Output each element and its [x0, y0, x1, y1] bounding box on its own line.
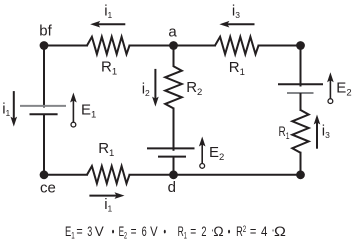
svg-text:4: 4	[261, 224, 268, 239]
svg-text:d: d	[168, 179, 176, 196]
svg-text:ce: ce	[40, 179, 56, 196]
battery E2 right top plate (long, black)	[278, 83, 323, 85]
wire: node d to bottom-right corner	[174, 174, 301, 176]
wire middle branch (R2 down to battery E2)	[173, 108, 175, 151]
svg-text:R1: R1	[229, 59, 245, 78]
emf arrow E2 right (up arrow with open circle)	[327, 72, 334, 103]
svg-text:i1: i1	[104, 196, 112, 214]
battery E2 middle top plate (long)	[147, 147, 195, 149]
current arrow i1 (top, pointing left)	[90, 21, 125, 28]
current arrow i2 (middle, pointing down)	[152, 69, 159, 107]
caption: E1 = 3 V, E2 = 6 V, R1 = 2 Ohm, R2 = 4 Ohm	[65, 224, 286, 241]
node bottom-right (dot)	[296, 170, 305, 179]
battery E2 middle bottom plate (short)	[158, 156, 186, 158]
wire right branch lower (R1 down to corner)	[300, 152, 302, 175]
emf arrow E2 middle (up arrow with open circle)	[199, 137, 206, 169]
svg-text:R1: R1	[101, 59, 117, 78]
svg-text:E1: E1	[65, 224, 75, 241]
node a (dot)	[169, 41, 178, 50]
svg-text:R2: R2	[186, 79, 202, 98]
svg-text:=: =	[131, 224, 137, 239]
current arrow i1 (left side, pointing down)	[11, 91, 18, 127]
wire middle branch upper (a down to R2)	[173, 46, 175, 68]
svg-text:i1: i1	[2, 100, 10, 118]
svg-text:bf: bf	[39, 23, 52, 40]
svg-text:2: 2	[201, 224, 206, 239]
svg-text:i3: i3	[232, 2, 240, 20]
current arrow i3 (top, pointing left)	[219, 21, 254, 28]
svg-text:i1: i1	[104, 2, 112, 20]
svg-text:=: =	[250, 224, 257, 239]
battery E1 bottom plate (short, black)	[30, 113, 58, 115]
svg-text:V: V	[95, 224, 104, 239]
current arrow i3 (right side, pointing up)	[314, 115, 321, 149]
svg-text:E2: E2	[209, 144, 224, 163]
svg-text:E1: E1	[81, 101, 96, 120]
svg-text:6: 6	[142, 224, 147, 239]
wire: node a to R1 top-right	[174, 45, 216, 47]
resistor R1 (top-right zigzag)	[215, 37, 259, 54]
wire bottom-left: ce to R1	[44, 174, 88, 176]
wire middle branch lower (battery to node d)	[173, 157, 175, 175]
node bf (dot)	[40, 41, 49, 50]
emf arrow E1 (up arrow with open circle)	[70, 93, 77, 128]
svg-text:R1: R1	[279, 123, 290, 142]
svg-text:i3: i3	[322, 123, 330, 141]
resistor R2 (middle vertical zigzag)	[165, 66, 182, 108]
svg-text:•: •	[112, 224, 115, 239]
svg-text:R1: R1	[178, 224, 187, 241]
svg-text:'Ω: 'Ω	[272, 224, 286, 239]
svg-text:•: •	[228, 224, 231, 239]
node d (dot)	[169, 170, 178, 179]
wire right branch (battery down to R1)	[300, 93, 302, 111]
wire right branch upper (corner down to battery E2)	[300, 46, 302, 87]
wire left branch upper (bf down to battery E1)	[43, 46, 45, 108]
node ce (dot)	[40, 170, 49, 179]
wire top-left: bf to R1	[44, 45, 88, 47]
wire: R1 top-right to corner	[258, 45, 301, 47]
svg-text:3: 3	[87, 224, 92, 239]
svg-text:i2: i2	[142, 81, 150, 99]
svg-text:=: =	[190, 224, 196, 239]
svg-text:'Ω: 'Ω	[212, 224, 224, 239]
battery E2 right bottom plate (short, gray)	[287, 92, 314, 94]
svg-text:=: =	[76, 224, 82, 239]
svg-text:V: V	[150, 224, 158, 239]
svg-text:R2: R2	[236, 224, 246, 239]
svg-text:E2: E2	[119, 224, 128, 241]
svg-text:R1: R1	[98, 140, 114, 159]
current arrow i1 (bottom, pointing right)	[89, 192, 124, 199]
resistor R1 (bottom zigzag)	[87, 166, 130, 183]
wire left branch lower (battery E1 down to ce)	[43, 114, 45, 175]
svg-text:E2: E2	[336, 80, 351, 99]
svg-text:•: •	[164, 224, 167, 239]
wire: R1 to node a	[129, 45, 175, 47]
resistor R1 (top-left zigzag)	[87, 37, 130, 54]
wire: bottom R1 to node d	[129, 174, 175, 176]
battery E1 top plate (long, gray)	[20, 105, 66, 107]
resistor R1 (right vertical zigzag)	[292, 110, 308, 153]
svg-text:a: a	[168, 24, 177, 41]
node top-right (dot)	[296, 41, 305, 50]
